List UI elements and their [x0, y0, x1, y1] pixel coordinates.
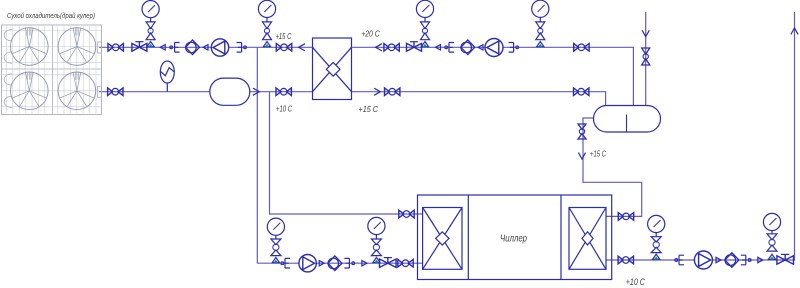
dry cooler frame	[2, 25, 102, 115]
valve VV2 on make-up line	[642, 48, 650, 65]
svg-text:Сухой охладитель(драй кулер): Сухой охладитель(драй кулер)	[7, 11, 95, 20]
check triangle after pump P3	[319, 261, 324, 266]
flow arrow after tank T1	[253, 88, 259, 95]
chiller condenser HX right	[569, 208, 606, 270]
dry cooler header stubs	[98, 42, 102, 53]
valve V5	[108, 88, 123, 96]
pump P2	[485, 39, 503, 57]
pump P3	[299, 255, 316, 272]
control valve TV2 with handle	[407, 42, 422, 52]
flexible insert F-E8	[741, 255, 746, 265]
gauge assembly G6	[368, 217, 385, 262]
flexible insert F-E4	[509, 43, 514, 53]
valve V6	[276, 88, 291, 96]
flow triangle on pump line	[362, 261, 367, 266]
wire: lower line, heat exchanger to tank	[352, 92, 606, 106]
flexible insert F-E6	[344, 258, 349, 268]
check triangle before pump P2	[478, 45, 483, 50]
flow triangle before control valve	[758, 257, 763, 262]
svg-text:+15 С: +15 С	[359, 105, 379, 114]
svg-text:Чиллер: Чиллер	[500, 233, 527, 245]
flexible insert F-E3	[449, 43, 454, 53]
valve V12 chiller bottom-right	[618, 256, 633, 264]
valve V3	[384, 44, 399, 52]
flexible insert F-E5	[285, 258, 290, 268]
wire: riser from top line down to chiller pump line	[256, 47, 258, 263]
strainer filter FL1	[186, 40, 200, 55]
wire: tank outlet +15C down and over to chiller	[583, 118, 642, 216]
flexible insert F-E1	[175, 43, 180, 53]
flow triangle on top line	[160, 45, 165, 50]
svg-text:+15 С: +15 С	[590, 150, 606, 159]
dry cooler coil return bends	[4, 30, 12, 41]
valve V2	[276, 44, 291, 52]
gauge assembly G3	[416, 0, 433, 47]
gauge assembly G8	[763, 213, 780, 259]
dry cooler fan 4	[58, 72, 96, 110]
flow arrow on top-right line	[376, 44, 382, 51]
flexible insert F-E2	[237, 43, 242, 53]
valve V1	[108, 44, 123, 52]
strainer filter FL2	[461, 40, 475, 55]
svg-text:+10 С: +10 С	[626, 277, 645, 287]
dry cooler fan 1	[11, 28, 49, 66]
pump P1	[211, 39, 228, 56]
flexible insert F-E7	[679, 255, 684, 265]
valve V9 on chiller inlet	[399, 210, 414, 218]
dry cooler fan 2	[58, 28, 96, 66]
gauge assembly G7	[648, 215, 665, 259]
wire: riser from lower line down to chiller supply	[270, 92, 423, 214]
dry cooler fan 3	[11, 72, 49, 110]
pump P4	[694, 251, 712, 269]
svg-text:+10 С: +10 С	[276, 105, 292, 114]
flow arrow down on tank outlet	[578, 153, 585, 159]
wire: chiller pump line	[257, 262, 422, 264]
expansion tank T1 (horizontal capsule)	[210, 78, 250, 105]
control valve TV1 with handle	[132, 42, 147, 52]
strainer filter FL3	[328, 256, 342, 271]
valve V10	[398, 259, 413, 267]
check triangle after pump P4	[716, 257, 721, 262]
strainer filter FL4	[725, 253, 739, 268]
flow arrow into top line from HX	[299, 44, 305, 51]
dry cooler coil fins	[2, 26, 102, 113]
wire: chiller bottom-right line to right riser	[606, 12, 795, 260]
chiller body	[418, 195, 612, 280]
wire: make-up drop line into tank	[645, 12, 647, 106]
valve V7	[385, 88, 400, 96]
flow triangle top-right line	[436, 45, 441, 50]
flow arrow down on make-up line	[642, 30, 649, 36]
check triangle before pump P1	[203, 45, 208, 50]
svg-text:+15 С: +15 С	[276, 32, 292, 41]
valve V8	[574, 88, 589, 96]
gauge assembly G1 (thermometer on top line)	[142, 1, 159, 47]
valve V11 chiller top-right	[618, 213, 633, 221]
valve VV1 on tank outlet	[578, 124, 586, 139]
chiller evaporator HX left	[423, 208, 462, 270]
gauge assembly G2 (air vent riser)	[258, 0, 275, 47]
wire: top line, dry cooler to heat exchanger	[99, 46, 313, 48]
heat exchanger U1 (plate HX)	[313, 38, 352, 100]
expansion vessel EV1	[160, 61, 174, 92]
flow arrow up on right riser	[791, 28, 798, 34]
svg-text:+20 С: +20 С	[361, 30, 380, 39]
gauge assembly G4	[532, 0, 549, 47]
buffer tank T2	[594, 106, 661, 133]
control valve TV4 with handle	[777, 254, 794, 264]
valve V4	[574, 44, 589, 52]
wire: top line, heat exchanger to tank drop	[352, 47, 634, 106]
flow arrow after HX on lower line	[374, 88, 380, 95]
gauge assembly G5	[267, 218, 284, 263]
wire: lower line, dry cooler to heat exchanger	[99, 91, 313, 93]
control valve TV3 with handle	[380, 258, 397, 268]
